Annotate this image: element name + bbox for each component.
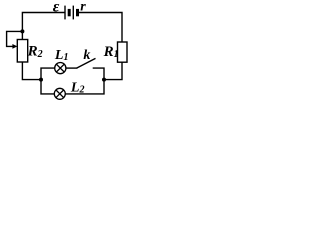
node junction dot left column top bbox=[20, 29, 24, 33]
wire L2 right lead up to right junction bbox=[65, 80, 104, 94]
wire top-left from left column corner to battery bbox=[22, 13, 64, 40]
wire switch right lead down to right junction bbox=[93, 68, 104, 80]
svg-text:L1: L1 bbox=[54, 48, 69, 63]
wire top-right from battery to right column down to R1 bbox=[79, 13, 122, 43]
svg-text:k: k bbox=[83, 48, 90, 63]
battery cell 1 short thick plate bbox=[68, 9, 71, 16]
svg-text:R2: R2 bbox=[27, 43, 43, 60]
rheostat slider arrow head bbox=[12, 44, 17, 49]
svg-text:L2: L2 bbox=[70, 80, 85, 95]
wire L2 left lead from left junction bbox=[41, 80, 54, 94]
lamp L2 bbox=[54, 88, 65, 99]
wire L1 lamp to switch pivot bbox=[66, 67, 76, 69]
svg-text:r: r bbox=[80, 0, 86, 15]
svg-text:ε: ε bbox=[53, 0, 60, 16]
battery cell 2 short thick plate bbox=[76, 9, 79, 16]
battery cell 2 long plate bbox=[72, 6, 74, 20]
wire rheostat slider tap bbox=[7, 31, 23, 46]
resistor R1 box bbox=[118, 42, 128, 62]
node junction dot left (lamp branch split) bbox=[39, 78, 43, 82]
wire R1 bottom to right junction bbox=[104, 62, 122, 79]
rheostat R2 box bbox=[17, 40, 27, 63]
switch k blade bbox=[77, 58, 96, 68]
svg-text:R1: R1 bbox=[103, 44, 119, 60]
wire left column R2 bottom to left junction bbox=[22, 62, 41, 80]
battery cell 1 long plate bbox=[64, 6, 66, 20]
node junction dot right (lamp branch merge) bbox=[102, 78, 106, 82]
wire L1 left lead from left junction bbox=[41, 68, 55, 80]
lamp L1 bbox=[55, 63, 66, 74]
